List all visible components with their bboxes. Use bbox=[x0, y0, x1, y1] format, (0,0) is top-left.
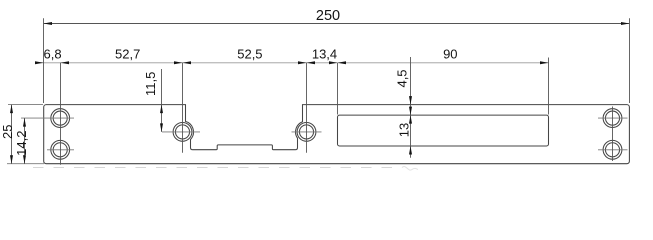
svg-text:14,2: 14,2 bbox=[14, 131, 29, 156]
hole H6 bottom-right outer bbox=[603, 140, 622, 159]
arrow 11,5 bottom bbox=[160, 123, 163, 131]
svg-text:13: 13 bbox=[397, 123, 412, 137]
svg-text:6,8: 6,8 bbox=[44, 47, 62, 62]
centerline left column vertical bbox=[60, 63, 62, 165]
extension line top-left corner bbox=[8, 104, 43, 106]
centerline H3 horizontal bbox=[162, 131, 200, 133]
dimension line 14,2 vertical bbox=[24, 118, 26, 164]
svg-text:52,5: 52,5 bbox=[237, 47, 262, 62]
hole H1 top-left inner bbox=[53, 111, 67, 125]
dimension row 2 line bbox=[35, 62, 549, 64]
arrow 11,5 top bbox=[160, 105, 163, 114]
arrow 52,5 right bbox=[298, 61, 307, 64]
arrow 52,5 left bbox=[183, 61, 192, 64]
arrow 6,8 outside-left bbox=[35, 61, 44, 64]
hole H1 top-left outer bbox=[51, 109, 70, 128]
hole H3 middle-left outer bbox=[173, 122, 192, 141]
faint dashed line below plate bbox=[33, 166, 402, 168]
extension line window left bbox=[337, 63, 339, 115]
dimension line 25 vertical bbox=[11, 105, 13, 164]
hole H5 top-right inner bbox=[605, 111, 619, 125]
centerline H1 horizontal bbox=[21, 117, 74, 119]
centerline H5 horizontal bbox=[598, 117, 628, 119]
svg-text:25: 25 bbox=[0, 125, 15, 139]
arrow 25 bottom bbox=[10, 155, 13, 164]
arrow 52,7 left bbox=[61, 61, 70, 64]
arrow 13,4 left bbox=[307, 61, 316, 64]
dimension line 4,5 and 13 vertical bbox=[410, 57, 412, 158]
plate outline bbox=[44, 105, 630, 164]
hole H4 middle-right inner bbox=[299, 125, 313, 139]
centerline H6 horizontal bbox=[598, 149, 628, 151]
svg-text:11,5: 11,5 bbox=[143, 72, 158, 96]
arrow 250 left bbox=[44, 22, 53, 25]
hole H4 middle-right outer bbox=[297, 122, 316, 141]
hole H2 bottom-left outer bbox=[51, 140, 70, 159]
arrow 13,4 right bbox=[329, 61, 338, 64]
faint break squiggle bbox=[402, 167, 418, 171]
svg-text:13,4: 13,4 bbox=[312, 47, 337, 62]
centerline H4 vertical bbox=[306, 63, 308, 153]
svg-text:250: 250 bbox=[316, 8, 340, 24]
hole H5 top-right outer bbox=[603, 109, 622, 128]
extension line bottom-left corner bbox=[7, 163, 44, 165]
centerline H3 vertical bbox=[182, 63, 184, 153]
arrow 14,2 top bbox=[23, 118, 26, 127]
arrow 14,2 bottom bbox=[23, 155, 26, 164]
hole H3 middle-left inner bbox=[175, 125, 189, 139]
arrow 52,7 right bbox=[174, 61, 183, 64]
dimension line 11,5 vertical bbox=[161, 69, 163, 132]
latch window cutout bbox=[338, 115, 549, 146]
arrow 13 top bbox=[409, 107, 412, 116]
dimension line 250 bbox=[44, 23, 630, 25]
arrow 90 left bbox=[338, 61, 347, 64]
hole H6 bottom-right inner bbox=[605, 143, 619, 157]
svg-text:90: 90 bbox=[443, 47, 457, 62]
hole H2 bottom-left inner bbox=[53, 143, 67, 157]
arrow 4,5 bottom bbox=[409, 115, 412, 124]
centerline H2 horizontal bbox=[47, 149, 74, 151]
extension line window right bbox=[548, 58, 550, 115]
arrow 13 bottom bbox=[409, 146, 412, 155]
extension line left edge bbox=[43, 18, 45, 103]
arrow 250 right bbox=[621, 22, 630, 25]
arrow 90 right bbox=[540, 61, 549, 64]
svg-text:4,5: 4,5 bbox=[395, 69, 410, 87]
arrow 4,5 top bbox=[409, 96, 412, 105]
extension line right edge bbox=[629, 18, 631, 103]
arrow 25 top bbox=[10, 105, 13, 114]
centerline H4 horizontal bbox=[292, 131, 322, 133]
svg-text:52,7: 52,7 bbox=[115, 47, 140, 62]
centerline right column vertical bbox=[612, 107, 614, 162]
